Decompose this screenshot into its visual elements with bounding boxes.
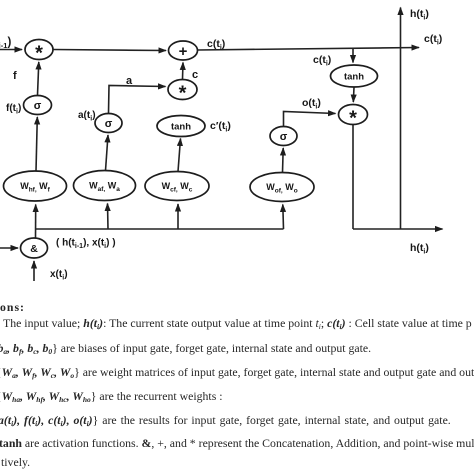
wire o: sigma-o up then right into output multiply — [284, 112, 336, 127]
LSTM cell diagram — [0, 0, 474, 290]
wire bottom h(t) line to right arrow — [353, 228, 443, 230]
wire W-af up into sigma-a — [106, 135, 109, 171]
ellipse sigma-f — [24, 96, 52, 115]
wire x(t) input up into ampersand — [33, 261, 35, 281]
svg-text:( h(ti-1), x(ti) ): ( h(ti-1), x(ti) ) — [56, 238, 116, 251]
ellipse sigma-a — [95, 114, 122, 133]
svg-text:c(ti): c(ti) — [313, 54, 331, 68]
wire ampersand up through line into W-hf — [35, 205, 37, 239]
wire c(t): adder to right edge arrow — [198, 48, 420, 51]
svg-text:σ: σ — [105, 118, 113, 130]
caption line 6 — [0, 413, 451, 428]
svg-text:f: f — [13, 70, 17, 82]
caption line 7 — [0, 436, 474, 451]
wire W-of up into sigma-o — [282, 148, 285, 173]
svg-text:tanh: tanh — [171, 122, 191, 133]
svg-text:c: c — [192, 69, 198, 81]
ellipse weights W-of — [250, 173, 314, 202]
wire concat line horizontal — [36, 228, 284, 230]
svg-text:a: a — [126, 75, 133, 87]
ellipse candidate tanh — [157, 116, 205, 137]
wire h(t) recurrent vertical up to top arrow — [400, 8, 402, 230]
svg-text:c′(ti): c′(ti) — [210, 120, 231, 134]
wire a: sigma-a up then right into c-multiply — [109, 86, 166, 114]
svg-text:(ti-1): (ti-1) — [0, 37, 11, 51]
wire h(t-1) input from left edge into ampersand — [0, 247, 18, 249]
svg-text:o(ti): o(ti) — [302, 97, 321, 111]
wire branch up into W-of — [282, 205, 285, 230]
wire sigma-f up to forget multiply — [38, 62, 39, 95]
svg-text:h(ti): h(ti) — [410, 8, 429, 22]
wire output tanh down into output multiply — [352, 88, 355, 103]
wire branch up into W-cf — [177, 204, 179, 229]
wire W-cf up into candidate tanh — [178, 139, 181, 172]
wire branch up into W-af — [107, 204, 110, 230]
ellipse c multiply — [168, 80, 197, 100]
ellipse output tanh — [331, 65, 378, 87]
svg-text:a(ti): a(ti) — [78, 110, 96, 123]
wire output multiply down to bottom h line — [352, 125, 354, 230]
ellipse weights W-cf — [145, 172, 209, 201]
caption line 1: notations heading — [0, 300, 25, 315]
wire W-hf up into sigma-f — [36, 117, 37, 171]
svg-text:h(ti): h(ti) — [410, 242, 429, 256]
caption line 5 — [0, 389, 223, 404]
svg-text:f(ti): f(ti) — [6, 103, 21, 116]
svg-text:&: & — [30, 243, 38, 255]
svg-text:c(ti): c(ti) — [207, 38, 225, 52]
caption line 3 — [0, 341, 371, 356]
ellipse adder — [169, 41, 198, 60]
ellipse weights W-hf — [4, 171, 67, 201]
svg-text:x(ti): x(ti) — [50, 269, 68, 282]
svg-text:*: * — [349, 108, 357, 130]
wire c(t-1) input from left edge into forget multiply — [0, 49, 22, 51]
svg-text:c(ti): c(ti) — [424, 33, 442, 47]
wire c-multiply up to adder — [182, 63, 185, 80]
ellipse ampersand concat — [21, 238, 48, 258]
ellipse output multiply — [339, 105, 368, 125]
svg-text:σ: σ — [280, 131, 288, 143]
svg-text:+: + — [179, 43, 188, 60]
caption line 4 — [0, 365, 474, 380]
wire branch down into output tanh — [352, 48, 354, 63]
ellipse sigma-o — [270, 127, 297, 146]
ellipse weights W-af — [74, 171, 136, 201]
svg-text:*: * — [179, 83, 187, 105]
svg-text:tanh: tanh — [344, 72, 364, 83]
caption line 2 — [3, 316, 472, 331]
svg-text:*: * — [35, 43, 43, 65]
svg-text:σ: σ — [34, 100, 42, 112]
wire forget multiply to adder — [54, 50, 167, 51]
caption line 8 — [1, 455, 30, 470]
ellipse forget multiply — [25, 40, 53, 60]
